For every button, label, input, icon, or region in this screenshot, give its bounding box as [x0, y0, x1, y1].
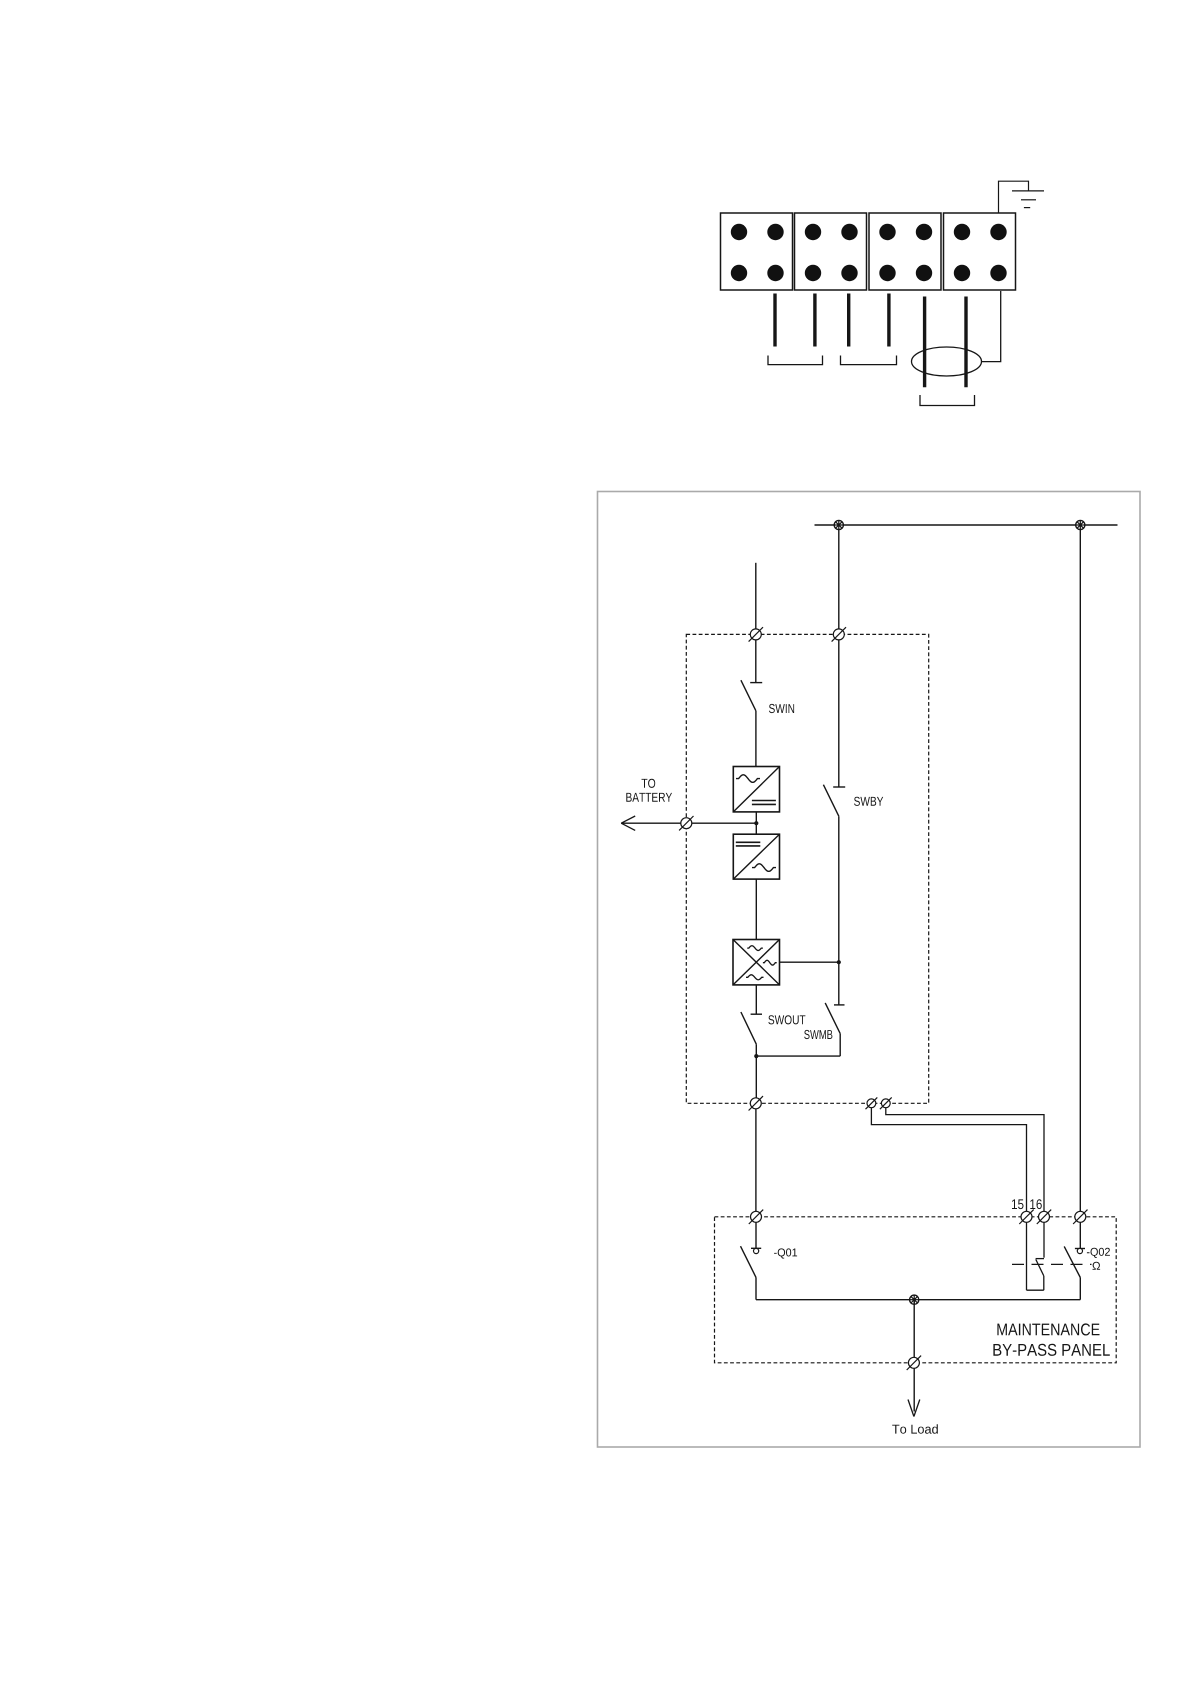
SECTION: top terminal strip [721, 181, 1045, 405]
terminal block TB2 [795, 213, 867, 290]
maintenance bypass panel (dashed) [715, 1217, 1117, 1363]
ground [999, 181, 1045, 213]
switch SWMB [756, 1003, 844, 1056]
SECTION: lower schematic [598, 492, 1141, 1448]
wire aux A step [871, 1108, 1026, 1217]
wire W3 [847, 294, 850, 347]
switch SWBY [823, 785, 845, 1005]
breaker Q02 [1064, 1222, 1085, 1299]
label -Q02 [1087, 1248, 1110, 1258]
wire inverter output [780, 961, 839, 963]
arrow to load [908, 1400, 920, 1417]
terminal block TB3 [869, 213, 941, 290]
interlock symbol [1093, 1262, 1101, 1270]
terminal UPS output [749, 1096, 763, 1110]
junction bus left [834, 520, 843, 529]
label 15 [1012, 1199, 1024, 1209]
wire W7 ground lead [981, 291, 1001, 362]
UPS enclosure (dashed) [686, 634, 928, 1103]
label SWOUT [768, 1015, 805, 1024]
wire W2 [813, 294, 816, 347]
label SWIN [769, 704, 794, 713]
interlock link (dashed) [1012, 1263, 1092, 1265]
wire to battery [621, 822, 756, 824]
wire bypass drop [838, 525, 840, 787]
wire W4 [887, 294, 890, 347]
label MAINTENANCE [997, 1323, 1099, 1335]
terminal UPS input L [749, 627, 763, 641]
node battery tap [754, 821, 758, 825]
terminal panel out [907, 1356, 921, 1370]
node inverter to bypass [837, 960, 841, 964]
terminal aux A [866, 1097, 878, 1109]
label 16 [1030, 1199, 1042, 1209]
node SWOUT-SWMB join [754, 1054, 758, 1058]
wire W5 [923, 297, 926, 388]
junction bus right [1076, 520, 1085, 529]
wire UPS output down [755, 1109, 757, 1217]
wire panel bus [756, 1299, 1080, 1301]
terminal battery [679, 816, 693, 830]
pair bracket 3 [920, 395, 975, 406]
wire aux B step [886, 1108, 1044, 1217]
pair bracket 2 [841, 356, 897, 365]
label SWMB [804, 1030, 832, 1039]
wire U2 to U3 [755, 879, 757, 939]
switch SWOUT [741, 985, 762, 1103]
label To Load [892, 1424, 938, 1434]
breaker Q01 [741, 1222, 762, 1299]
drawing frame [598, 492, 1141, 1448]
cable loop [912, 347, 982, 376]
inverter U3 [733, 940, 780, 985]
terminal panel in [749, 1210, 763, 1224]
terminal UPS input R [832, 627, 846, 641]
wire reserve feed [1079, 525, 1081, 1217]
terminal aux B [880, 1097, 892, 1109]
rectifier U1 [733, 767, 779, 812]
wire W6 [964, 297, 967, 388]
wire top bus [815, 524, 1118, 526]
aux contact 15-16 [1027, 1222, 1045, 1290]
converter U2 [733, 834, 779, 879]
wire mains input [755, 563, 757, 635]
terminal block TB4 [944, 213, 1016, 290]
terminal 15 [1019, 1210, 1033, 1224]
label -Q01 [774, 1248, 797, 1258]
switch SWIN [741, 634, 762, 766]
wire U1 to battery node [755, 812, 757, 834]
junction panel bus [910, 1295, 919, 1304]
wire to load [913, 1300, 915, 1412]
arrow to battery [621, 816, 635, 830]
pair bracket 1 [768, 356, 823, 365]
terminal block TB1 [721, 213, 793, 290]
terminal panel reserve [1073, 1210, 1087, 1224]
label TO BATTERY [626, 779, 672, 802]
terminal 16 [1037, 1210, 1051, 1224]
label BY-PASS PANEL [993, 1344, 1109, 1356]
label SWBY [854, 797, 883, 806]
wire W1 [773, 294, 776, 347]
